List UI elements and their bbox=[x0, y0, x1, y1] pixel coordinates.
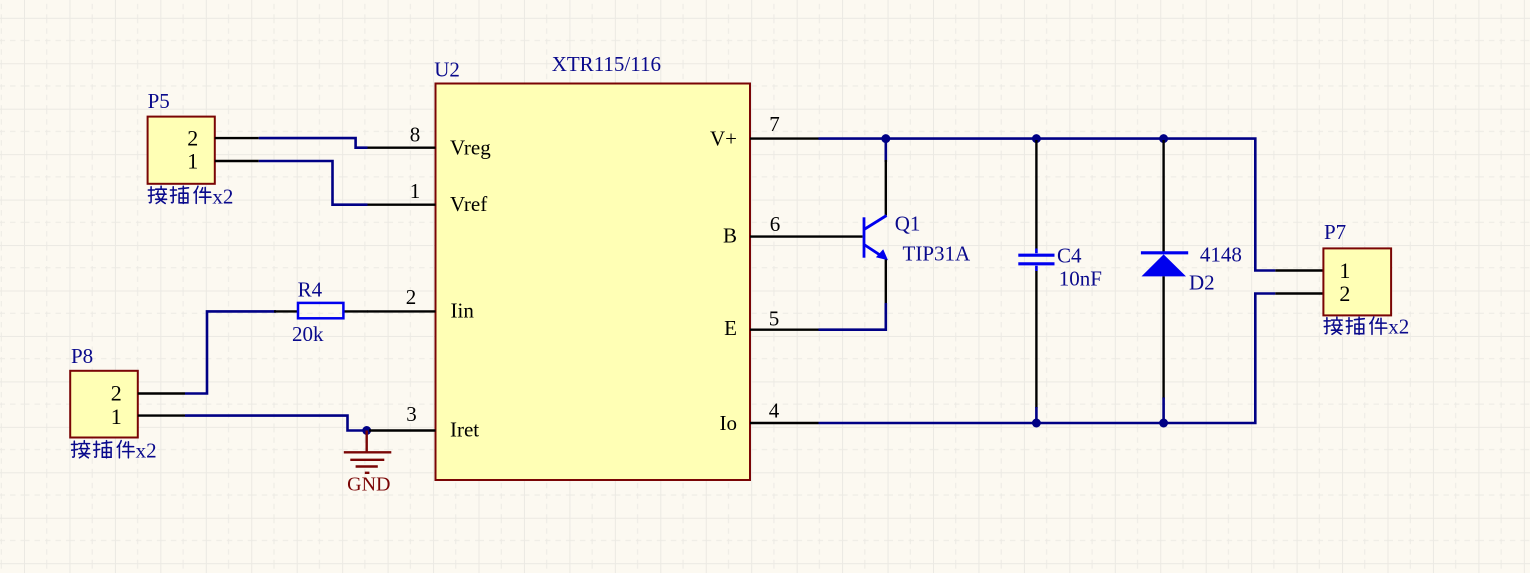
pin P7.2 stub bbox=[1275, 292, 1323, 294]
svg-text:P8: P8 bbox=[71, 344, 93, 368]
svg-text:4148: 4148 bbox=[1200, 242, 1242, 266]
svg-text:Vref: Vref bbox=[450, 192, 487, 216]
pin U2.1 Vref bbox=[368, 179, 488, 216]
node Io/C4 junction bbox=[1032, 419, 1041, 428]
wire P8.2 to R4 bbox=[185, 311, 276, 393]
transistor Q1 bbox=[864, 160, 971, 305]
connector P7 bbox=[1323, 220, 1391, 315]
label 接插件x2 (P7) bbox=[1324, 315, 1409, 339]
pin P8.1 bbox=[138, 414, 185, 416]
pin U2.8 Vreg bbox=[368, 122, 492, 159]
ground GND bbox=[344, 431, 392, 496]
pin U2.4 Io bbox=[720, 399, 819, 435]
svg-text:TIP31A: TIP31A bbox=[903, 242, 972, 266]
pin P8.2 bbox=[138, 392, 185, 394]
pin U2.6 B bbox=[723, 212, 863, 248]
wire Q1 collector bbox=[884, 139, 887, 162]
svg-text:1: 1 bbox=[187, 148, 198, 173]
svg-text:x2: x2 bbox=[136, 438, 157, 462]
resistor R4 bbox=[274, 278, 368, 346]
svg-text:D2: D2 bbox=[1189, 270, 1215, 294]
label 接插件x2 (P5) bbox=[148, 184, 233, 208]
svg-text:10nF: 10nF bbox=[1059, 267, 1102, 291]
svg-text:x2: x2 bbox=[1388, 315, 1409, 339]
node Io/D2 junction bbox=[1159, 419, 1168, 428]
svg-text:7: 7 bbox=[769, 112, 780, 136]
pin P5.1 bbox=[215, 160, 259, 162]
svg-text:4: 4 bbox=[769, 399, 780, 423]
diode D2 bbox=[1141, 140, 1242, 423]
pin P7.1 stub bbox=[1275, 269, 1323, 271]
svg-text:x2: x2 bbox=[212, 184, 233, 208]
wire P8.1 to GND node bbox=[185, 416, 367, 431]
svg-text:B: B bbox=[723, 224, 737, 248]
pin P5.2 bbox=[215, 137, 259, 139]
pin U2.7 V+ bbox=[710, 112, 819, 150]
svg-text:U2: U2 bbox=[434, 58, 460, 82]
svg-text:Iin: Iin bbox=[451, 299, 475, 323]
svg-text:V+: V+ bbox=[710, 126, 737, 150]
svg-text:2: 2 bbox=[406, 285, 417, 309]
svg-text:2: 2 bbox=[111, 381, 122, 406]
capacitor C4 bbox=[1018, 140, 1102, 423]
svg-text:1: 1 bbox=[111, 404, 122, 429]
svg-text:Q1: Q1 bbox=[895, 212, 921, 236]
wire P5.1 to U2 pin1 bbox=[259, 161, 368, 205]
svg-text:1: 1 bbox=[410, 179, 421, 203]
pin U2.2 Iin bbox=[368, 285, 475, 323]
node V+/Q1 junction bbox=[881, 134, 890, 143]
svg-text:P5: P5 bbox=[148, 89, 170, 113]
pin U2.5 E bbox=[724, 306, 818, 340]
connector P8 bbox=[70, 344, 138, 438]
wire P5.2 to U2 pin8 bbox=[259, 138, 368, 148]
node V+/C4 junction bbox=[1032, 134, 1041, 143]
svg-text:6: 6 bbox=[770, 212, 781, 236]
svg-text:3: 3 bbox=[406, 402, 417, 426]
svg-text:R4: R4 bbox=[298, 278, 323, 302]
svg-text:1: 1 bbox=[1339, 258, 1350, 283]
svg-text:5: 5 bbox=[769, 306, 780, 330]
svg-text:2: 2 bbox=[1339, 281, 1350, 306]
label 接插件x2 (P8) bbox=[72, 438, 157, 462]
svg-text:2: 2 bbox=[187, 126, 198, 151]
svg-text:C4: C4 bbox=[1057, 243, 1082, 267]
svg-text:E: E bbox=[724, 316, 737, 340]
svg-text:P7: P7 bbox=[1324, 220, 1346, 244]
svg-text:GND: GND bbox=[347, 474, 390, 496]
op-amp U2 XTR115/116 bbox=[434, 52, 750, 480]
svg-text:Io: Io bbox=[720, 411, 738, 435]
node V+/D2 junction bbox=[1159, 134, 1168, 143]
svg-text:20k: 20k bbox=[292, 322, 324, 346]
pin U2.3 Iret bbox=[369, 402, 479, 442]
node GND junction bbox=[362, 426, 371, 435]
connector P5 bbox=[148, 89, 215, 184]
wire V+ rail to P7.1 bbox=[819, 139, 1276, 271]
wire Io rail to P7.2 bbox=[819, 294, 1276, 424]
svg-text:Vreg: Vreg bbox=[450, 136, 491, 160]
svg-text:XTR115/116: XTR115/116 bbox=[552, 52, 661, 76]
svg-text:8: 8 bbox=[410, 122, 421, 146]
wire Q1 emitter to U2 pin5 bbox=[819, 303, 886, 330]
svg-text:Iret: Iret bbox=[450, 418, 479, 442]
